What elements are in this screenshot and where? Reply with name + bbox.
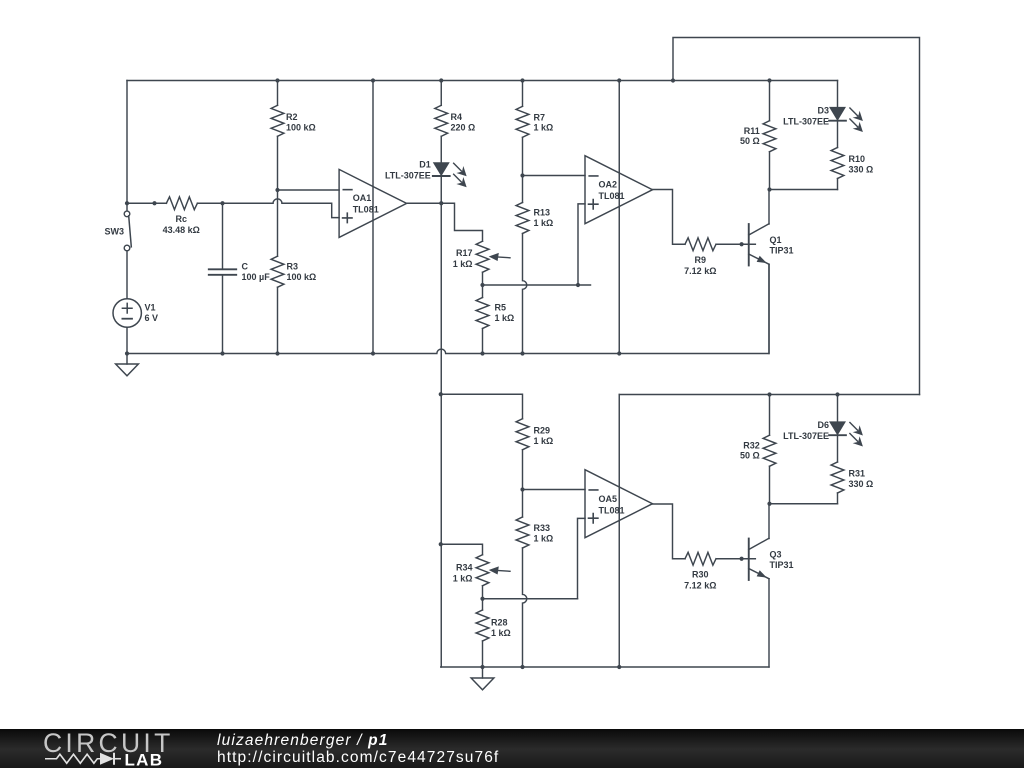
svg-text:Q1: Q1 (770, 235, 782, 245)
svg-text:D6: D6 (817, 420, 829, 430)
svg-text:100 kΩ: 100 kΩ (286, 123, 316, 133)
svg-text:R5: R5 (495, 302, 507, 312)
svg-text:7.12 kΩ: 7.12 kΩ (684, 266, 716, 276)
svg-text:100 kΩ: 100 kΩ (287, 272, 317, 282)
svg-text:D1: D1 (419, 160, 431, 170)
svg-text:R29: R29 (534, 425, 551, 435)
svg-text:LAB: LAB (125, 751, 164, 769)
svg-text:1 kΩ: 1 kΩ (534, 436, 554, 446)
svg-text:50 Ω: 50 Ω (740, 451, 760, 461)
svg-text:100 µF: 100 µF (242, 272, 271, 282)
svg-text:OA2: OA2 (599, 180, 618, 190)
svg-text:TL081: TL081 (599, 506, 625, 516)
svg-text:R34: R34 (456, 563, 473, 573)
svg-text:R3: R3 (287, 262, 299, 272)
svg-text:Rc: Rc (175, 214, 187, 224)
svg-text:R31: R31 (849, 468, 866, 478)
svg-text:TIP31: TIP31 (770, 246, 794, 256)
svg-text:TIP31: TIP31 (770, 560, 794, 570)
svg-text:R13: R13 (534, 207, 551, 217)
svg-text:Q3: Q3 (770, 549, 782, 559)
svg-text:OA1: OA1 (353, 193, 372, 203)
svg-text:1 kΩ: 1 kΩ (534, 123, 554, 133)
svg-text:1 kΩ: 1 kΩ (534, 218, 554, 228)
svg-text:50 Ω: 50 Ω (740, 136, 760, 146)
svg-text:R33: R33 (534, 523, 551, 533)
svg-text:R32: R32 (743, 440, 760, 450)
svg-text:R30: R30 (692, 570, 709, 580)
svg-text:220 Ω: 220 Ω (451, 123, 476, 133)
svg-text:TL081: TL081 (599, 191, 625, 201)
svg-text:1 kΩ: 1 kΩ (453, 573, 473, 583)
svg-text:C: C (242, 262, 249, 272)
svg-text:R28: R28 (491, 617, 508, 627)
svg-text:OA5: OA5 (599, 494, 618, 504)
svg-text:R9: R9 (695, 255, 707, 265)
svg-text:7.12 kΩ: 7.12 kΩ (684, 581, 716, 591)
svg-text:R7: R7 (534, 112, 546, 122)
svg-text:R10: R10 (849, 154, 866, 164)
svg-text:330 Ω: 330 Ω (849, 164, 874, 174)
svg-text:6 V: 6 V (145, 313, 159, 323)
svg-text:R11: R11 (744, 126, 760, 136)
svg-text:TL081: TL081 (353, 205, 379, 215)
svg-text:1 kΩ: 1 kΩ (495, 313, 515, 323)
svg-text:LTL-307EE: LTL-307EE (783, 116, 829, 126)
svg-text:R4: R4 (451, 112, 463, 122)
svg-text:1 kΩ: 1 kΩ (534, 534, 554, 544)
svg-text:1 kΩ: 1 kΩ (491, 628, 511, 638)
svg-text:R2: R2 (286, 112, 298, 122)
svg-text:LTL-307EE: LTL-307EE (783, 431, 829, 441)
svg-text:330 Ω: 330 Ω (849, 479, 874, 489)
svg-text:D3: D3 (817, 106, 829, 116)
svg-text:V1: V1 (145, 302, 156, 312)
svg-text:R17: R17 (456, 248, 473, 258)
svg-text:1 kΩ: 1 kΩ (453, 259, 473, 269)
svg-text:LTL-307EE: LTL-307EE (385, 170, 431, 180)
svg-text:43.48 kΩ: 43.48 kΩ (163, 225, 200, 235)
svg-text:SW3: SW3 (104, 227, 124, 237)
